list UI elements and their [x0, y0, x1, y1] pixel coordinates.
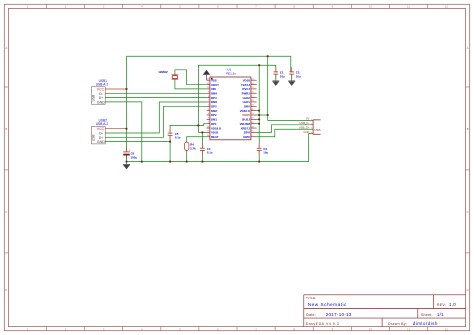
U1 left pin DP3	[207, 105, 210, 107]
U1 right pin VGD5	[251, 114, 257, 116]
svg-text:DP1: DP1	[211, 122, 217, 126]
svg-text:1/1: 1/1	[437, 312, 444, 317]
svg-text:DM4: DM4	[211, 91, 217, 95]
svg-text:Sheet:: Sheet:	[421, 313, 433, 317]
svg-text:DM3: DM3	[211, 100, 217, 104]
wire C4 bottom to ground rail	[201, 150, 203, 161]
svg-text:5V: 5V	[306, 117, 309, 121]
svg-text:2: 2	[311, 123, 312, 125]
svg-text:0.1u: 0.1u	[207, 151, 213, 155]
svg-text:TITLE:: TITLE:	[306, 296, 316, 300]
U1 right pin LED1	[251, 101, 257, 103]
svg-text:GND: GND	[97, 101, 105, 105]
svg-text:Date:: Date:	[306, 313, 316, 317]
svg-text:VCC: VCC	[97, 127, 105, 131]
wire ground rail bottom	[127, 134, 309, 162]
svg-text:DM1: DM1	[211, 118, 217, 122]
svg-text:FE1.1s: FE1.1s	[226, 71, 236, 75]
U1 right pin DMU	[251, 136, 257, 138]
capacitor C5 0.1u	[169, 129, 171, 134]
svg-text:TESTJ: TESTJ	[241, 83, 250, 87]
svg-text:USB-A-2: USB-A-2	[96, 122, 109, 126]
svg-text:VD33 O: VD33 O	[240, 109, 251, 113]
svg-text:REXT: REXT	[211, 135, 219, 139]
wire USB1 D+ to DP4	[105, 97, 206, 99]
svg-text:VD18 O: VD18 O	[211, 126, 222, 130]
ground symbol at U1 VSS (points up)	[206, 75, 208, 81]
svg-text:LED1: LED1	[243, 100, 251, 104]
U1 left pin XIN	[207, 88, 210, 90]
crystal X1 12MHZ	[172, 74, 179, 76]
svg-text:USB_D-: USB_D-	[300, 121, 310, 125]
ground under C6	[126, 162, 128, 165]
wire 5V top rail to C2	[127, 56, 291, 71]
svg-text:VCC: VCC	[97, 87, 105, 91]
wire right pin tie stub	[257, 123, 260, 125]
svg-text:10: 10	[369, 5, 372, 9]
svg-text:VD18: VD18	[243, 78, 251, 82]
U1 right pin LED2	[251, 97, 257, 99]
junction USB GND / rail	[141, 161, 143, 163]
junction USB2 GND / C5	[169, 141, 171, 143]
svg-text:GND: GND	[303, 130, 309, 134]
svg-text:DM2: DM2	[211, 109, 217, 113]
wire USB2 GND to C5 node	[105, 141, 170, 143]
frame row ticks and letters	[4, 86, 8, 88]
wire 5V down to USB port 5V pin	[268, 56, 313, 120]
svg-text:0.1u: 0.1u	[175, 136, 181, 140]
U1 right pin OVCJ	[251, 88, 257, 90]
svg-text:10u: 10u	[280, 74, 285, 78]
svg-text:OVCJ: OVCJ	[242, 87, 250, 91]
svg-text:D+: D+	[99, 136, 104, 140]
wire USB1 D- to DM4	[105, 92, 206, 94]
title block	[304, 294, 466, 296]
wire crystal bottom to XIN	[175, 79, 207, 89]
svg-text:REV:: REV:	[437, 303, 446, 307]
connector USB2 USB-A-2 body	[91, 127, 105, 144]
U1 right pin XRSTJ	[251, 127, 257, 129]
junction VD33 / C4	[202, 132, 204, 134]
svg-text:D+: D+	[99, 96, 104, 100]
junction VGD5 / 5V	[267, 114, 269, 116]
U1 left pin DM2	[207, 110, 210, 112]
U1 right pin VBUSM	[251, 123, 257, 125]
U1 right pin DRV	[251, 105, 257, 107]
svg-text:2017-10-13: 2017-10-13	[326, 312, 352, 317]
svg-text:12: 12	[445, 327, 448, 331]
svg-text:VSS: VSS	[211, 78, 217, 82]
U1 left pin VD33	[207, 131, 210, 133]
U1 left pin DP2	[207, 114, 210, 116]
wire C5 top to DP1	[170, 124, 207, 133]
svg-text:BUSJ: BUSJ	[242, 118, 250, 122]
capacitor C4 0.1u	[201, 144, 203, 149]
svg-text:A: A	[467, 46, 469, 50]
svg-text:DP4: DP4	[211, 96, 217, 100]
U1 right pin BUSJ	[251, 118, 257, 120]
wire REXT to R4 top	[187, 137, 207, 142]
svg-text:A: A	[5, 46, 7, 50]
ground under C1	[275, 74, 277, 81]
svg-text:12: 12	[445, 5, 448, 9]
junction C3 / rail	[258, 161, 260, 163]
svg-text:D: D	[5, 288, 7, 292]
U1 left pin DP1	[207, 123, 210, 125]
junction VD33 rail	[258, 64, 260, 66]
wire USB2 D+ to DP3	[105, 106, 206, 137]
wire USB2 VCC to 5V net	[105, 128, 126, 130]
svg-text:USB_D+: USB_D+	[299, 125, 310, 129]
U1 left pin XOUT	[207, 84, 210, 86]
svg-text:3: 3	[311, 128, 312, 130]
svg-text:B: B	[5, 127, 7, 131]
wire 5V vertical to C6	[126, 56, 128, 152]
frame column ticks and numbers	[46, 4, 48, 8]
U1 pin1 marker dot	[211, 78, 213, 80]
svg-text:D: D	[467, 288, 469, 292]
svg-text:USB: USB	[314, 128, 320, 132]
svg-text:100u: 100u	[131, 155, 138, 159]
svg-text:C: C	[467, 210, 469, 214]
wire USB1 VCC to 5V net	[105, 88, 126, 90]
svg-text:10: 10	[369, 327, 372, 331]
junction VGD5 pin	[258, 114, 260, 116]
wire right pin tie stub	[257, 110, 260, 112]
svg-text:12MHZ: 12MHZ	[158, 70, 168, 74]
wire USB1 GND down to ground rail	[105, 102, 142, 162]
resistor R4 2.7k	[186, 141, 188, 143]
wire USB2 D- to DM3	[105, 102, 206, 133]
svg-text:PWRJ: PWRJ	[242, 91, 251, 95]
svg-text:4: 4	[311, 132, 312, 134]
junction VBUSM pin	[258, 123, 260, 125]
wire DMU to USB port	[257, 129, 314, 137]
junction C6 / rail	[126, 161, 128, 163]
svg-text:1: 1	[311, 119, 312, 121]
U1 right pin VD18	[251, 79, 257, 81]
wire USB port GND stub	[309, 133, 314, 135]
connector USB1 USB-A-2 body	[91, 87, 105, 104]
U1 left pin REXT	[207, 136, 210, 138]
wire right pin tie stub	[257, 118, 260, 120]
svg-text:LED2: LED2	[243, 96, 251, 100]
svg-text:10u: 10u	[263, 151, 268, 155]
wire VD33 tie vertical through right pins to C3	[258, 65, 260, 148]
svg-text:DMU: DMU	[243, 135, 249, 139]
svg-text:10u: 10u	[296, 74, 301, 78]
junction C5 / rail	[169, 161, 171, 163]
U1 left pin DM4	[207, 92, 210, 94]
svg-text:USB: USB	[92, 95, 96, 102]
svg-text:EasyEDA V4.9.3: EasyEDA V4.9.3	[306, 322, 340, 326]
junction USB1 VCC / 5V	[126, 88, 128, 90]
svg-text:New Schematic: New Schematic	[308, 302, 347, 307]
svg-text:dimlordish: dimlordish	[413, 321, 438, 326]
svg-text:Drawn By:: Drawn By:	[388, 322, 407, 326]
U1 left pin DP4	[207, 97, 210, 99]
wire DPU to USB port	[257, 125, 314, 133]
svg-text:XRSTJ: XRSTJ	[241, 126, 251, 130]
svg-text:DP2: DP2	[211, 113, 217, 117]
U1 right pin PWRJ	[251, 92, 257, 94]
svg-text:GND: GND	[97, 140, 105, 144]
junction BUSJ pin	[258, 118, 260, 120]
wire C3 bottom to ground rail	[258, 151, 260, 162]
wire VD5 pin to 5V vertical	[257, 114, 268, 116]
svg-text:VGD5: VGD5	[242, 113, 250, 117]
svg-text:2.7k: 2.7k	[190, 146, 196, 150]
ground under C2	[291, 74, 293, 81]
U1 left pin VD18 O	[207, 127, 210, 129]
svg-text:VBUSM: VBUSM	[240, 122, 251, 126]
capacitor C1 10u	[275, 67, 277, 72]
IC U1 FE1.1s USB hub controller body	[210, 77, 251, 140]
svg-text:DPU: DPU	[244, 131, 250, 135]
wire VD33 down to C4	[201, 132, 203, 148]
svg-text:1.0: 1.0	[449, 302, 456, 307]
wire VD33 row into U1	[198, 131, 206, 133]
svg-text:XOUT: XOUT	[211, 83, 219, 87]
junction VD33_O pin	[258, 110, 260, 112]
junction DP1 / C5 wire	[198, 125, 200, 127]
U1 right pin TESTJ	[251, 84, 257, 86]
wire VD33 rail to C1 and down left of U1	[198, 65, 275, 132]
capacitor C3 10u	[258, 144, 260, 149]
svg-text:DRV: DRV	[244, 105, 250, 109]
capacitor C2 10u	[291, 67, 293, 72]
junction C4 / rail	[202, 161, 204, 163]
svg-text:XIN: XIN	[211, 87, 216, 91]
wire R4 bottom to ground rail	[186, 150, 188, 161]
svg-text:VD33: VD33	[211, 131, 219, 135]
svg-text:USB: USB	[92, 135, 96, 142]
svg-text:B: B	[467, 127, 469, 131]
svg-text:C: C	[5, 210, 7, 214]
junction 5V top rail	[267, 55, 269, 57]
svg-text:USB-A-2: USB-A-2	[96, 82, 109, 86]
junction R4 / rail	[186, 161, 188, 163]
U1 right pin VD33 O	[251, 110, 257, 112]
svg-text:DP3: DP3	[211, 105, 217, 109]
wire C5 bottom to ground rail	[169, 135, 171, 161]
connector USB upstream port bracket	[313, 120, 321, 134]
U1 left pin VSS	[207, 79, 210, 81]
capacitor C6 100u electrolytic	[126, 147, 128, 152]
U1 right pin DPU	[251, 131, 257, 133]
wire crystal top to XOUT	[175, 70, 207, 85]
U1 left pin DM3	[207, 101, 210, 103]
U1 left pin DM1	[207, 118, 210, 120]
junction USB2 VCC / 5V	[126, 128, 128, 130]
